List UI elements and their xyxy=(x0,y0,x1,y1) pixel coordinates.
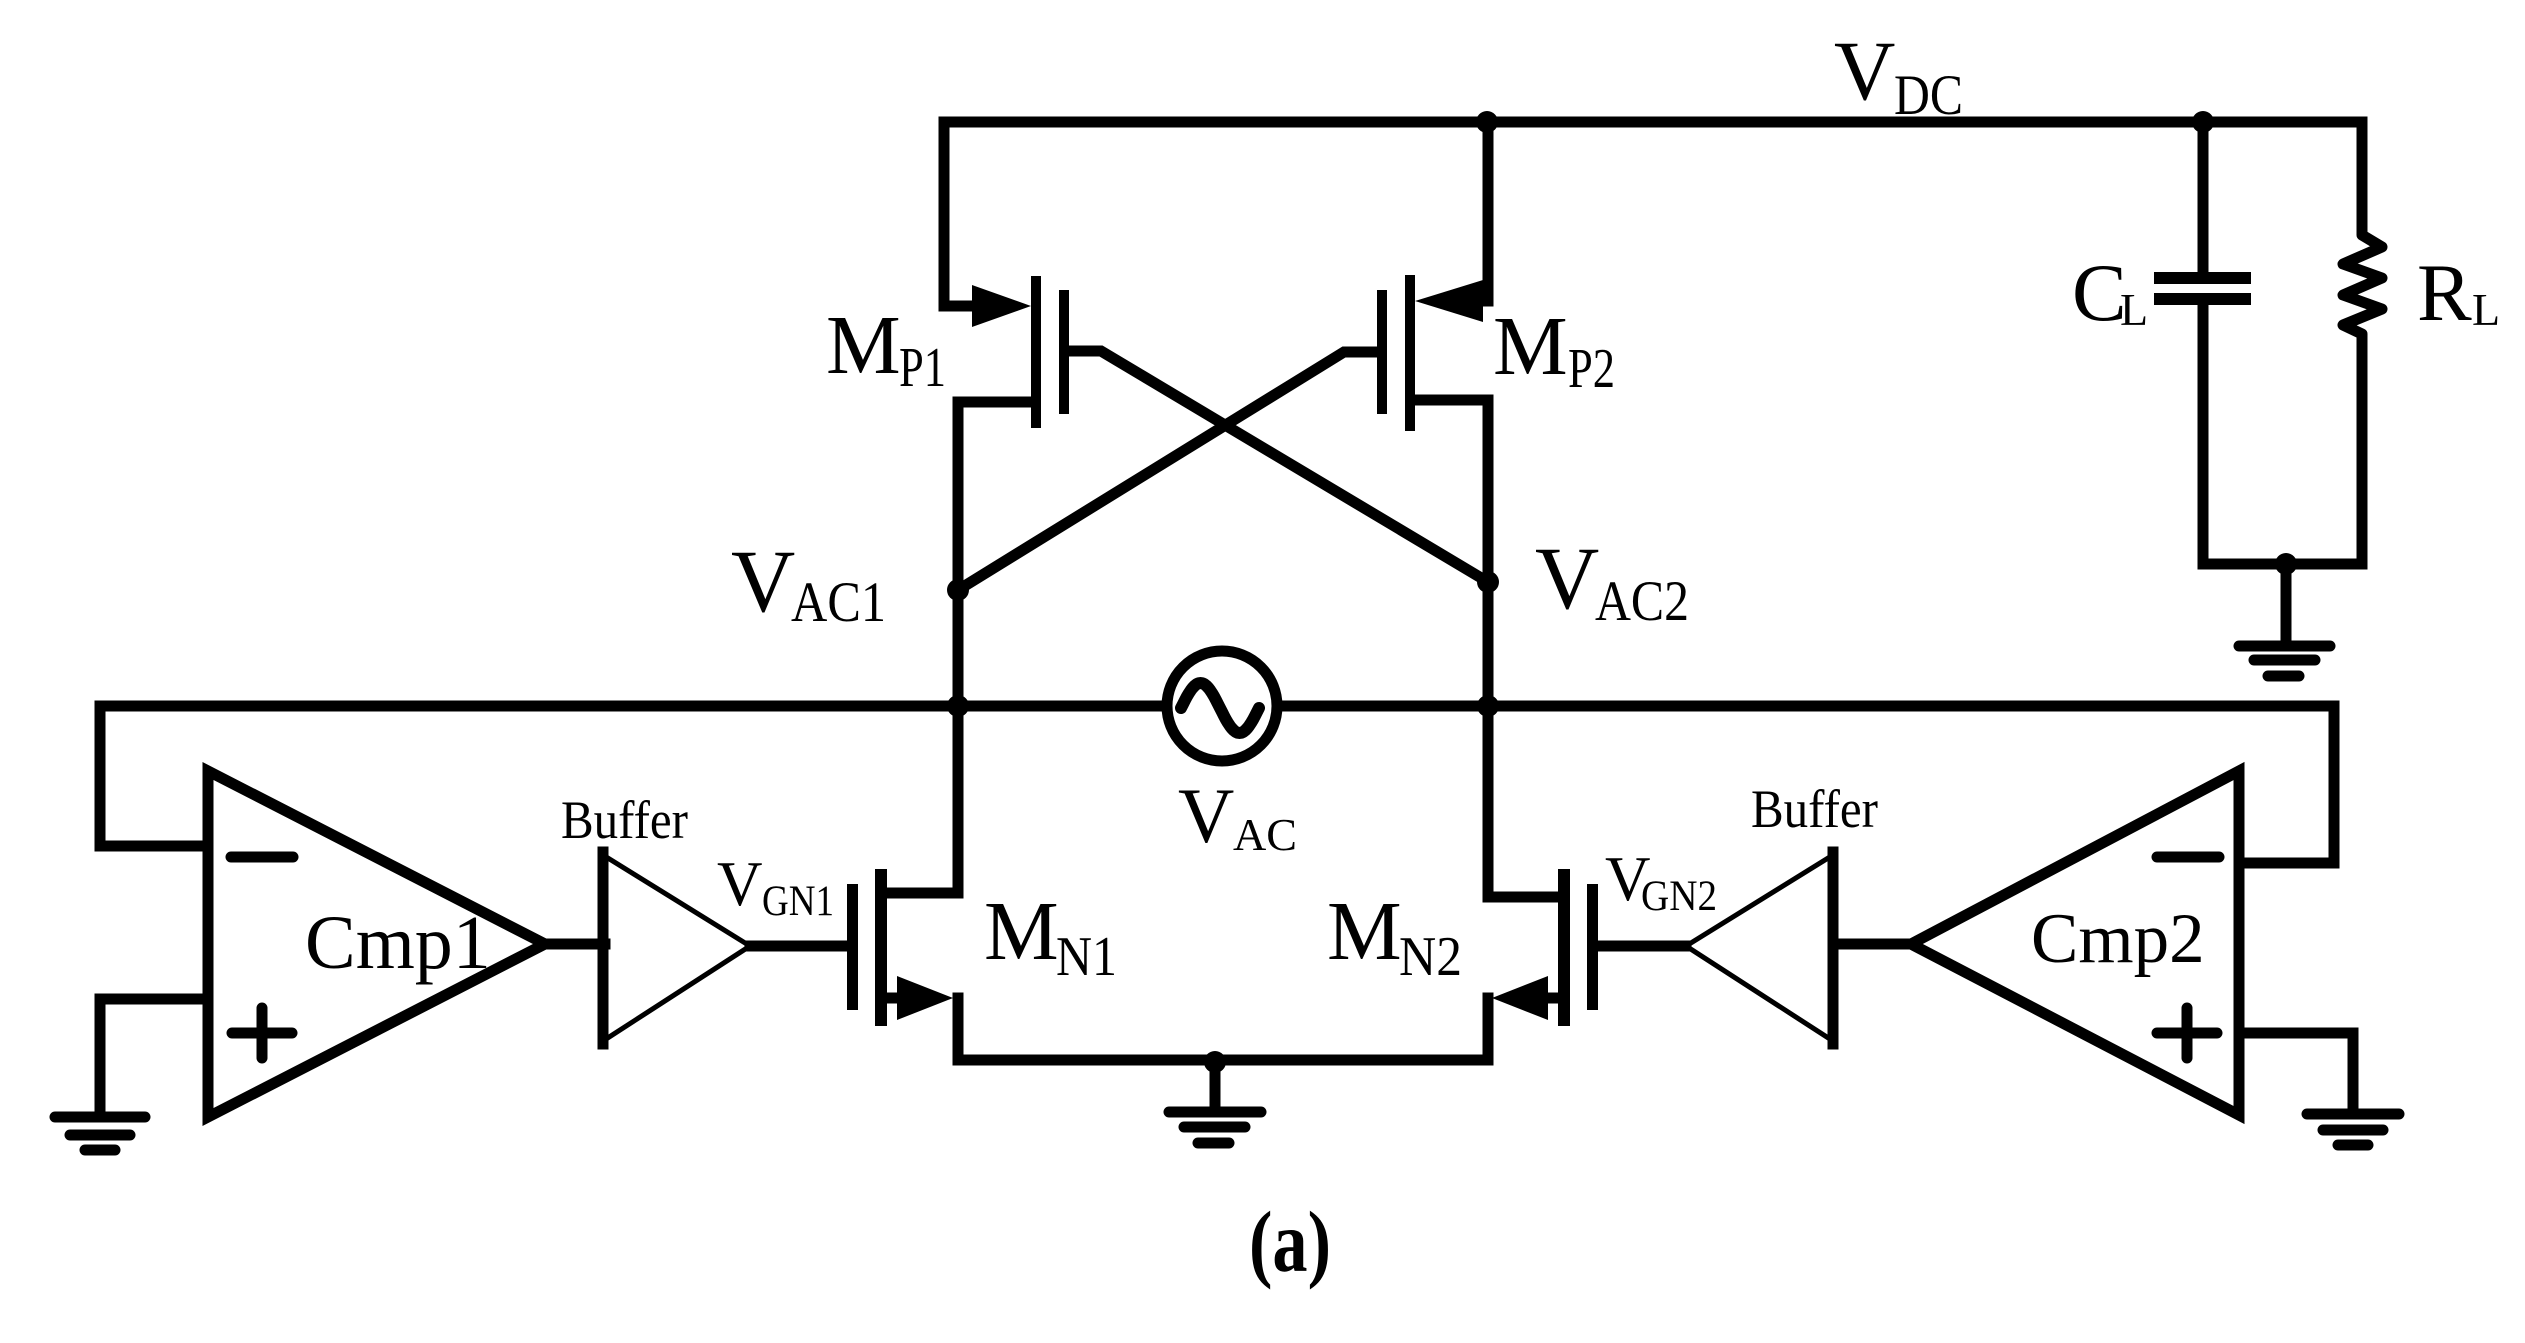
node VAC1 xyxy=(947,579,969,601)
label VAC xyxy=(1178,772,1297,860)
wire Cmp2 output to buffer xyxy=(1835,939,1911,950)
svg-text:(a): (a) xyxy=(1249,1193,1331,1290)
wire left vertical VAC1 branch xyxy=(953,402,964,893)
svg-text:DC: DC xyxy=(1894,64,1963,127)
wire main horizontal VAC net xyxy=(100,706,2334,863)
svg-text:N2: N2 xyxy=(1399,926,1462,988)
buffer U2 xyxy=(1686,855,1833,1041)
capacitor CL xyxy=(2154,122,2251,564)
label VGN2 xyxy=(1605,844,1717,920)
svg-text:AC: AC xyxy=(1233,810,1297,860)
node junction top rail / CL branch xyxy=(2192,111,2214,133)
svg-text:GN2: GN2 xyxy=(1641,873,1717,920)
wire Cmp1 output to buffer xyxy=(545,939,605,950)
node center ground junction xyxy=(1204,1051,1226,1073)
svg-text:C: C xyxy=(2072,247,2127,338)
node VAC2 xyxy=(1477,571,1499,593)
label MP2 xyxy=(1493,300,1615,400)
Cmp1 plus symbol xyxy=(232,1008,292,1058)
ground Cmp2 xyxy=(2307,1114,2399,1145)
label VAC1 xyxy=(731,533,886,634)
node VAC2 on main wire xyxy=(1477,695,1499,717)
svg-text:L: L xyxy=(2472,284,2500,335)
transistor MN1 xyxy=(750,869,958,1060)
wire VDC top rail xyxy=(944,122,2362,306)
node load ground junction xyxy=(2275,553,2297,575)
transistor MN2 xyxy=(1488,869,1686,1060)
label RL xyxy=(2417,247,2500,338)
wire right vertical VAC2 branch xyxy=(1483,400,1494,897)
wire Cmp2 plus input xyxy=(2241,1033,2353,1106)
transistor MP2 xyxy=(958,275,1488,590)
svg-text:V: V xyxy=(1178,772,1234,859)
ground load xyxy=(2239,564,2330,676)
wire CL/RL bottom xyxy=(2203,559,2362,570)
label VDC xyxy=(1834,24,1963,127)
Cmp2 minus symbol xyxy=(2157,852,2219,863)
svg-text:Buffer: Buffer xyxy=(1751,779,1878,839)
svg-text:M: M xyxy=(826,299,901,392)
svg-text:GN1: GN1 xyxy=(762,878,834,925)
svg-text:V: V xyxy=(1535,530,1599,628)
ground Cmp1 xyxy=(55,1117,145,1150)
resistor RL xyxy=(2343,122,2382,564)
label VAC2 xyxy=(1535,530,1689,633)
label VGN1 xyxy=(717,849,834,925)
svg-text:V: V xyxy=(1834,24,1895,118)
wire MP2 source drop xyxy=(1483,122,1494,301)
svg-text:M: M xyxy=(984,885,1059,978)
wire Cmp1 plus input xyxy=(100,999,208,1110)
Cmp2 plus symbol xyxy=(2157,1008,2217,1058)
label MN1 xyxy=(984,885,1117,988)
svg-text:M: M xyxy=(1327,885,1402,978)
node VAC1 on main wire xyxy=(947,695,969,717)
op-amp Cmp2 xyxy=(1911,771,2239,1115)
svg-text:P2: P2 xyxy=(1568,338,1615,400)
label MP1 xyxy=(826,299,946,399)
svg-text:V: V xyxy=(731,533,795,631)
svg-text:AC2: AC2 xyxy=(1595,570,1689,633)
svg-text:Buffer: Buffer xyxy=(561,790,688,850)
Cmp1 minus symbol xyxy=(231,852,293,863)
source VAC circle xyxy=(1167,651,1277,761)
svg-text:V: V xyxy=(717,849,763,919)
svg-text:AC1: AC1 xyxy=(791,571,886,634)
op-amp Cmp1 xyxy=(208,771,545,1117)
svg-text:P1: P1 xyxy=(899,337,946,399)
transistor MP1 xyxy=(958,276,1488,582)
svg-text:Cmp2: Cmp2 xyxy=(2031,900,2205,978)
svg-text:L: L xyxy=(2120,284,2148,335)
svg-text:R: R xyxy=(2417,247,2472,338)
label MN2 xyxy=(1327,885,1462,988)
svg-text:M: M xyxy=(1493,300,1568,393)
label CL xyxy=(2072,247,2148,338)
node junction top rail / MP2 source xyxy=(1476,111,1498,133)
buffer U1 xyxy=(603,855,750,1041)
source VAC sine symbol xyxy=(1181,683,1259,733)
wire MN1 source to center ground xyxy=(958,1055,1215,1066)
svg-text:Cmp1: Cmp1 xyxy=(305,901,491,985)
svg-text:N1: N1 xyxy=(1056,926,1117,988)
ground center xyxy=(1169,1062,1261,1143)
wire MN2 source to center ground xyxy=(1215,1055,1488,1066)
